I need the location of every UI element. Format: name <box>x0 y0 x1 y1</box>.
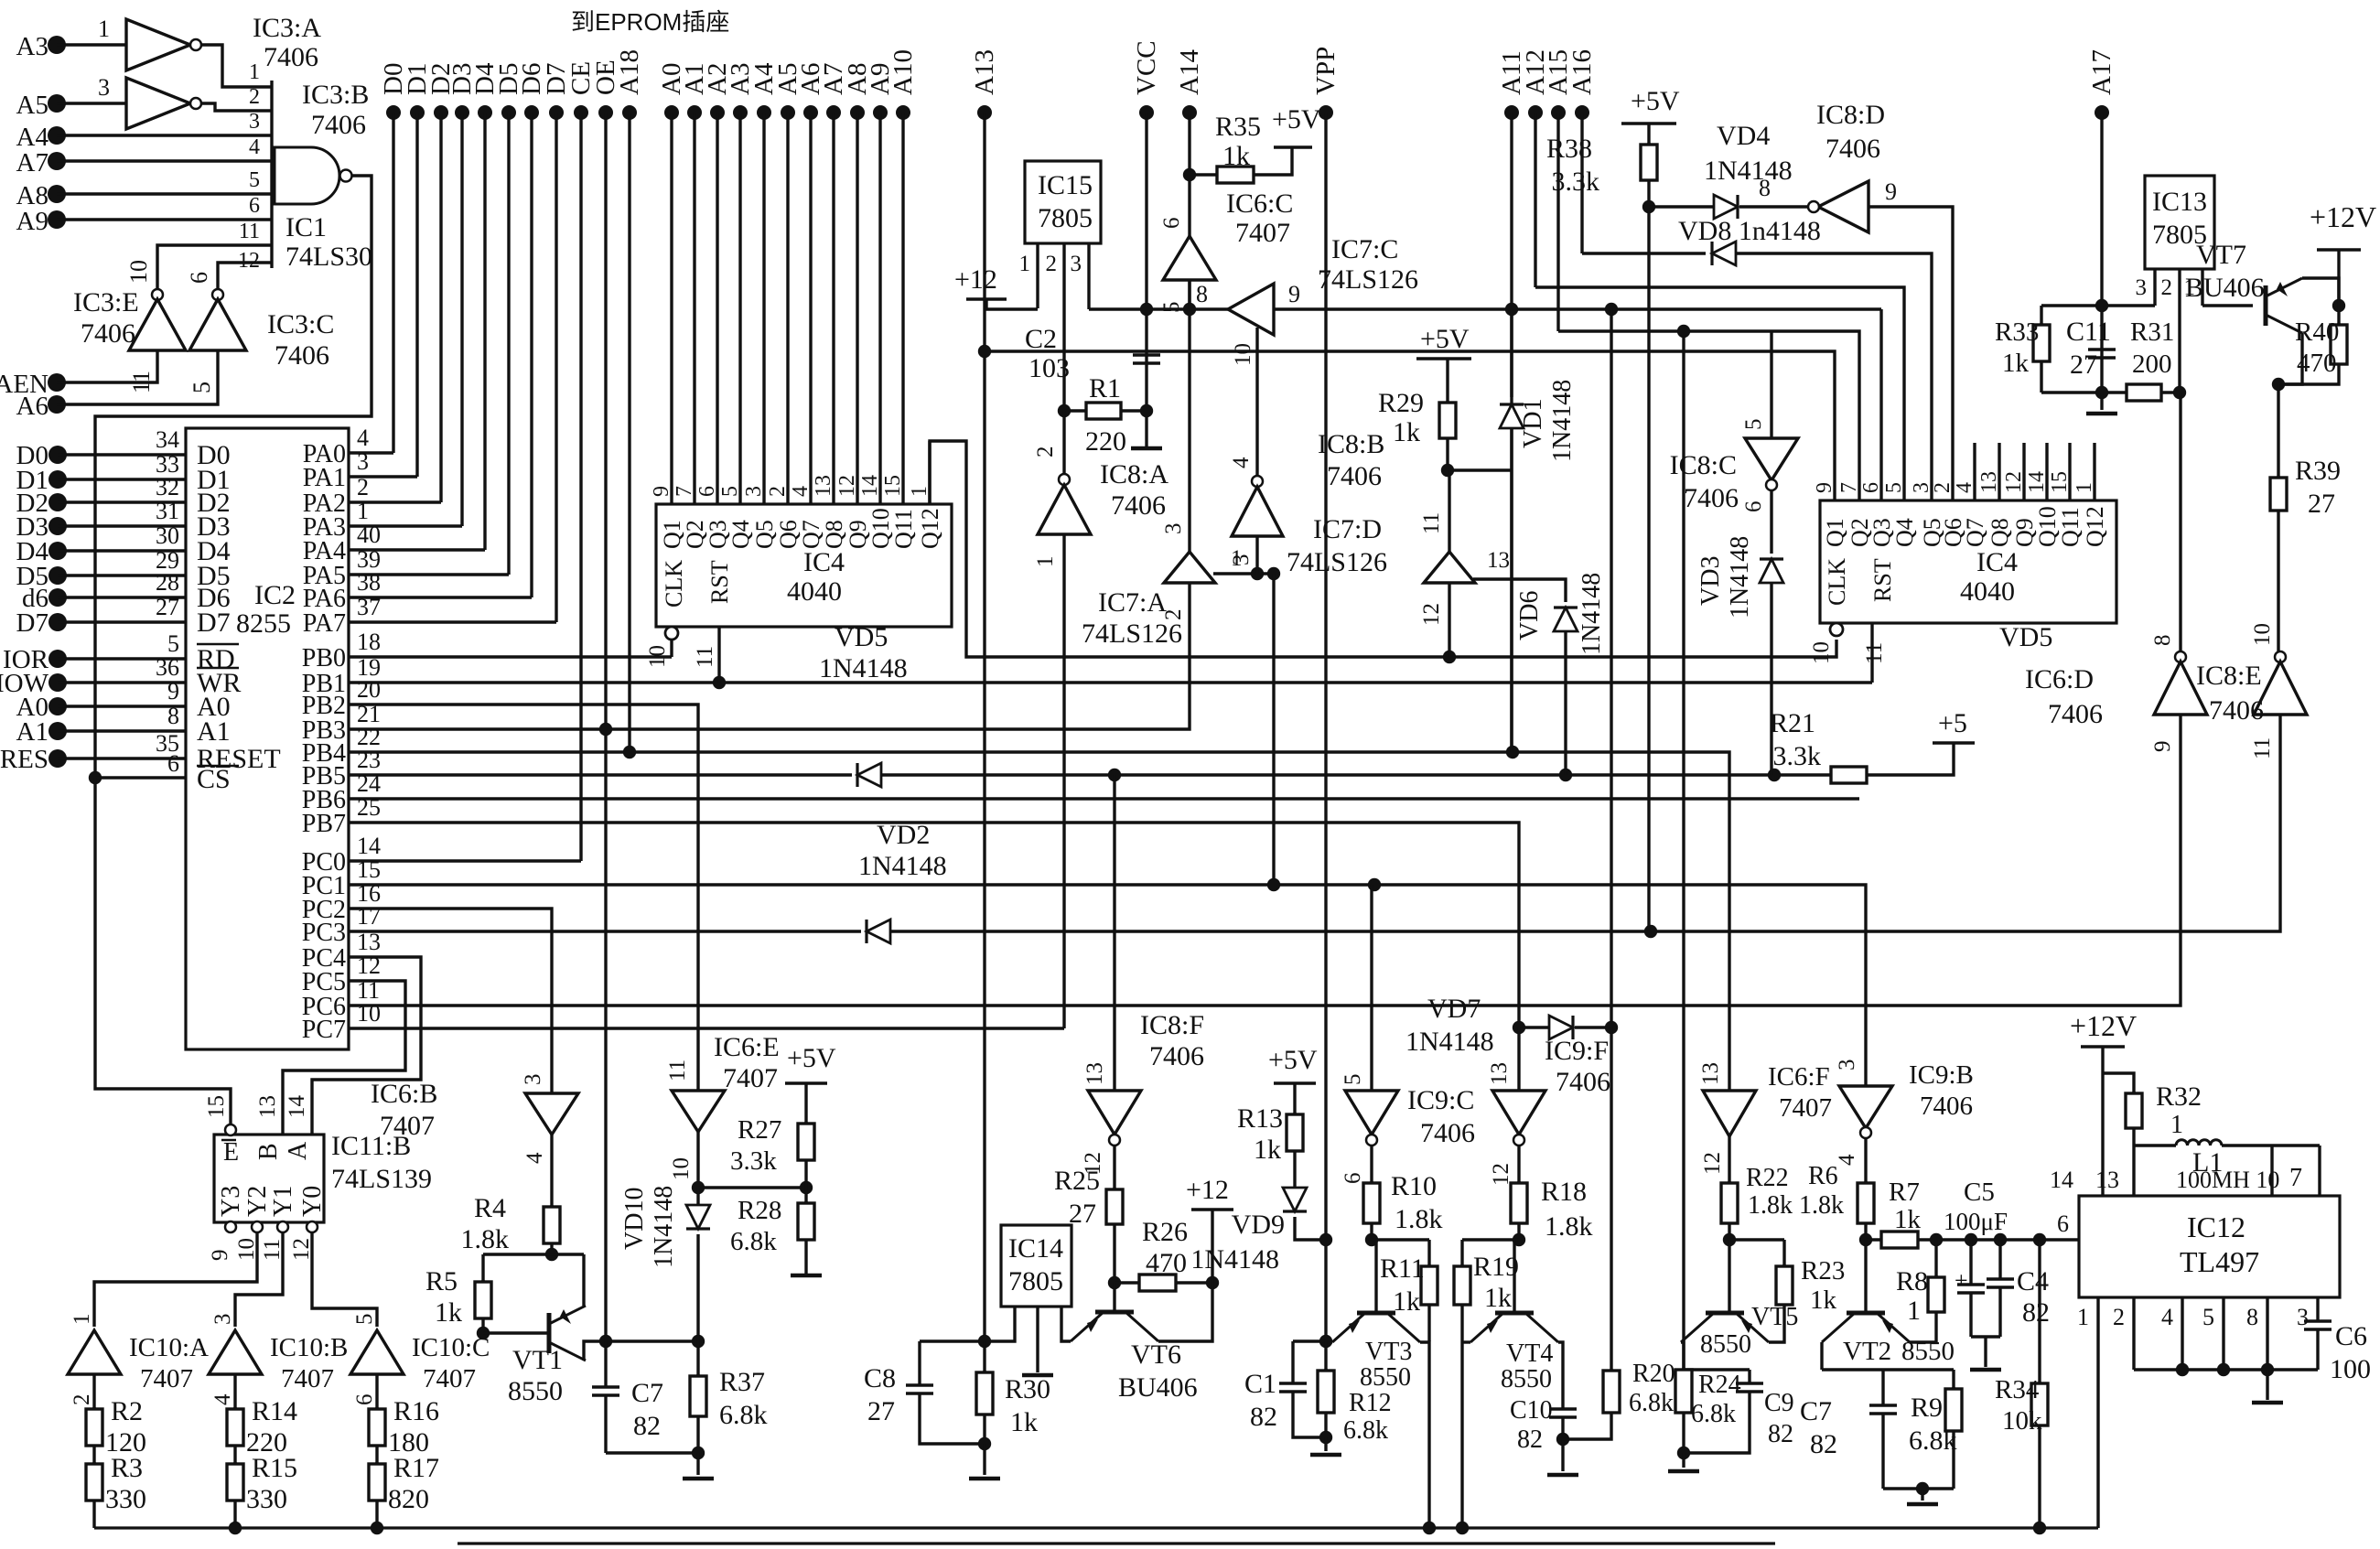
junction enable/IC8:B input <box>1251 567 1264 580</box>
wire IC6:D output up to IC13 pin2 line <box>2179 393 2181 651</box>
svg-text:R33: R33 <box>1995 317 2039 347</box>
svg-text:R30: R30 <box>1005 1374 1050 1404</box>
node A14 bus terminal <box>1182 105 1197 120</box>
svg-text:27: 27 <box>867 1396 895 1426</box>
svg-text:VT4: VT4 <box>1506 1339 1553 1368</box>
node A4 bus terminal <box>757 105 771 120</box>
node A17 bus terminal <box>2095 105 2109 120</box>
svg-text:2: 2 <box>1033 446 1058 458</box>
svg-text:82: 82 <box>1810 1429 1837 1459</box>
svg-text:103: 103 <box>1028 353 1070 383</box>
svg-text:27: 27 <box>2308 489 2335 519</box>
svg-text:3: 3 <box>210 1314 235 1326</box>
node D7 bus terminal <box>549 105 564 120</box>
svg-text:1: 1 <box>70 1314 94 1326</box>
wire PB1 to 4040 RST nets <box>349 681 1872 683</box>
wire IOW to IC2 <box>58 681 186 683</box>
svg-text:1k: 1k <box>435 1297 462 1328</box>
wire Y0 to IC10:C <box>312 1232 377 1327</box>
svg-text:11: 11 <box>693 646 717 668</box>
wire R23 bottom to VT5 emitter node <box>1769 1305 1784 1342</box>
input terminal D5 <box>48 566 67 585</box>
svg-text:3: 3 <box>2297 1304 2309 1330</box>
IC15 pin 2 <box>1062 243 1065 406</box>
node D6 bus terminal <box>524 105 539 120</box>
wire IOR to IC2 <box>58 657 186 660</box>
wire box bottom <box>1883 1487 1954 1490</box>
diode VD3 1N4148 <box>1770 490 1772 554</box>
svg-text:A6: A6 <box>16 392 48 421</box>
svg-text:28: 28 <box>156 569 179 596</box>
node CE bus terminal <box>574 105 588 120</box>
svg-text:14: 14 <box>357 833 381 859</box>
svg-text:BU406: BU406 <box>1118 1372 1198 1403</box>
svg-text:PC3: PC3 <box>302 919 346 947</box>
svg-text:E: E <box>223 1138 239 1167</box>
wire PB2 down to IC6:E <box>349 705 698 1091</box>
ground below R12 <box>1324 1437 1327 1451</box>
junction R25/R26/VT6 base <box>1108 1276 1121 1289</box>
junction PB4/A18 <box>623 746 636 758</box>
svg-text:20: 20 <box>357 676 381 703</box>
capacitor C7 82 <box>604 1341 607 1387</box>
wire A0 to IC2 <box>58 705 186 707</box>
svg-text:7406: 7406 <box>1684 483 1739 513</box>
wire VT3 base <box>1374 1240 1377 1313</box>
svg-text:6.8k: 6.8k <box>719 1400 768 1430</box>
wire node to R5 and emitter <box>483 1253 584 1255</box>
wire PA2 to D2 bus <box>349 500 441 503</box>
wire R14 column <box>233 1374 236 1409</box>
wire VT7 collector down <box>2278 333 2302 384</box>
junction R5 bottom / base <box>477 1327 490 1339</box>
svg-text:R37: R37 <box>719 1367 765 1397</box>
input terminal A1 <box>48 722 67 740</box>
svg-text:VCC: VCC <box>1132 40 1161 95</box>
wire PB6 rail <box>349 797 1859 800</box>
wire node to R23 <box>1729 1238 1784 1241</box>
wire A5 bus vertical <box>786 113 789 504</box>
node A3 bus terminal <box>733 105 748 120</box>
inverter IC8:E 7406 <box>2275 651 2286 662</box>
svg-text:C5: C5 <box>1964 1178 1995 1207</box>
svg-text:VD2: VD2 <box>877 820 930 850</box>
resistor R8 1 <box>1934 1240 1937 1277</box>
junction <box>2176 1363 2189 1376</box>
wire A15 to Q2 with IC8:C tap <box>1558 331 1859 500</box>
svg-text:11: 11 <box>1862 642 1887 664</box>
svg-text:VPP: VPP <box>1311 47 1341 95</box>
wire R38 column down to PC3 <box>1647 180 1650 931</box>
junction rail <box>371 1522 383 1534</box>
svg-text:8550: 8550 <box>1700 1330 1751 1359</box>
wire IC9:F input <box>1517 1027 1520 1091</box>
svg-text:6.8k: 6.8k <box>730 1227 777 1256</box>
NAND gate IC1 74LS30 <box>270 81 273 268</box>
svg-text:R20: R20 <box>1632 1360 1675 1388</box>
wire pin3 to A17 and R33 <box>2041 304 2155 307</box>
svg-text:Q8: Q8 <box>821 520 847 549</box>
svg-text:C4: C4 <box>2017 1266 2049 1296</box>
wire A13 bus vertical <box>983 113 985 1341</box>
junction +12V/R40 <box>2332 299 2345 312</box>
svg-text:10: 10 <box>234 1238 259 1261</box>
wire A11 bus vertical <box>1510 113 1513 752</box>
buffer IC6:C 7407 <box>1163 236 1216 280</box>
wire D3 to IC2 <box>58 524 186 527</box>
IC14 right pin to VT6 <box>1061 1307 1071 1341</box>
svg-text:RST: RST <box>1869 558 1896 602</box>
svg-text:6.8k: 6.8k <box>1691 1400 1736 1428</box>
resistor R16 180 <box>375 1407 378 1409</box>
svg-text:D7: D7 <box>197 608 231 638</box>
capacitor C2 103 on VCC rail <box>1133 353 1160 357</box>
wire VCC bus vertical <box>1145 113 1147 448</box>
node OE bus terminal <box>598 105 613 120</box>
svg-text:3: 3 <box>521 1074 545 1086</box>
wire RES to IC2 <box>58 757 186 759</box>
wire VT1 collector down to OE/C7 node <box>584 1341 606 1361</box>
svg-text:8550: 8550 <box>508 1376 563 1406</box>
junction C4 <box>1994 1233 2007 1246</box>
wire OE bus vertical <box>604 113 607 1341</box>
inverter IC8:C 7406 <box>1770 331 1772 438</box>
resistor R23 1k <box>1782 1240 1785 1266</box>
svg-text:1k: 1k <box>1810 1285 1837 1315</box>
junction Q12 net / IC7:D input <box>1443 651 1456 663</box>
junction rail <box>229 1522 242 1534</box>
svg-text:2: 2 <box>2113 1304 2125 1330</box>
ground below C11 <box>2100 393 2103 410</box>
svg-text:74LS30: 74LS30 <box>285 242 372 272</box>
svg-text:IC14: IC14 <box>1008 1233 1063 1264</box>
svg-text:VD5: VD5 <box>1999 622 2052 652</box>
svg-text:IC3:C: IC3:C <box>267 309 334 339</box>
wire IC3:B output to IC1 pin 2 <box>200 103 272 111</box>
wire PB3 to IC7:A enable <box>349 583 1190 729</box>
svg-text:6.8k: 6.8k <box>1343 1416 1388 1445</box>
svg-text:IC9:F: IC9:F <box>1545 1036 1609 1066</box>
svg-text:7407: 7407 <box>140 1364 193 1393</box>
svg-text:C10: C10 <box>1510 1396 1553 1425</box>
svg-text:C2: C2 <box>1025 324 1057 354</box>
svg-text:5: 5 <box>1341 1074 1365 1086</box>
svg-text:10k: 10k <box>2002 1406 2042 1436</box>
svg-text:R15: R15 <box>252 1453 297 1483</box>
junction R31/pin2 <box>2173 386 2186 399</box>
svg-text:Y1: Y1 <box>269 1186 297 1217</box>
svg-text:1N4148: 1N4148 <box>1190 1244 1279 1275</box>
svg-text:12: 12 <box>2002 471 2026 493</box>
wire VT6 base <box>1113 1283 1115 1312</box>
svg-text:9: 9 <box>208 1250 232 1262</box>
wire D7 bus vertical <box>555 113 557 622</box>
wire column from A15 line down to R24 cell <box>1682 331 1685 1370</box>
wire VT7 emitter to +12V column <box>2302 278 2339 306</box>
wire A7 to IC1 pin 4 <box>57 159 272 162</box>
resistor R35 1k <box>1190 173 1217 176</box>
capacitor C6 100 <box>2316 1297 2319 1321</box>
wire IC8:D input from Q6 column <box>1868 207 1953 500</box>
svg-text:IC8:A: IC8:A <box>1100 459 1168 489</box>
svg-text:1k: 1k <box>1393 1286 1420 1317</box>
svg-text:5: 5 <box>1741 419 1766 431</box>
svg-text:B: B <box>254 1143 283 1160</box>
svg-text:R35: R35 <box>1215 112 1261 142</box>
wire VT4 right lead to C10 <box>1558 1342 1563 1409</box>
IC IC4 4040 binary counter (right) <box>1820 500 2116 623</box>
ground bar below R28 <box>791 1274 822 1278</box>
svg-text:4: 4 <box>1229 457 1254 468</box>
inverter IC6:D 7406 <box>2175 651 2186 662</box>
svg-text:TL497: TL497 <box>2180 1245 2259 1278</box>
input terminal A5 <box>48 94 66 113</box>
IC11 pin 15 E input with bubble <box>225 1124 236 1135</box>
resistor R3 330 <box>92 1462 95 1464</box>
svg-text:12: 12 <box>835 475 859 497</box>
junction VPP <box>1319 1233 1332 1246</box>
svg-text:R9: R9 <box>1911 1393 1943 1423</box>
node A10 bus terminal <box>896 105 910 120</box>
junction R24 bottom <box>1677 1447 1690 1459</box>
wire IC9:C output down <box>1370 1145 1373 1183</box>
svg-text:Q12: Q12 <box>2082 506 2108 547</box>
junction enable/down column <box>1267 567 1280 580</box>
svg-text:3: 3 <box>249 110 260 134</box>
wire PC0 to CE <box>349 859 581 862</box>
IC14 middle pin to ground <box>1036 1307 1039 1372</box>
svg-text:7406: 7406 <box>264 42 318 72</box>
svg-text:PC7: PC7 <box>302 1016 346 1044</box>
junction C10 bottom <box>1556 1433 1569 1446</box>
svg-text:VT2: VT2 <box>1843 1337 1891 1366</box>
wire D0 to IC2 <box>58 453 186 456</box>
wire A17 bus vertical <box>2100 113 2103 306</box>
svg-text:11: 11 <box>239 220 260 243</box>
wire VD9 bottom to VPP line <box>1295 1217 1326 1240</box>
capacitor C4 82 <box>1998 1240 2001 1279</box>
svg-text:9: 9 <box>2150 741 2175 753</box>
svg-text:6: 6 <box>352 1394 377 1406</box>
svg-text:IC8:D: IC8:D <box>1816 100 1885 130</box>
svg-text:7: 7 <box>673 486 696 497</box>
svg-text:1.8k: 1.8k <box>1799 1191 1844 1220</box>
wire R15 to ground rail <box>233 1501 236 1528</box>
svg-text:Q11: Q11 <box>890 509 917 549</box>
svg-text:IC6:F: IC6:F <box>1768 1062 1830 1092</box>
resistor R26 470 <box>1115 1281 1139 1284</box>
svg-text:18: 18 <box>357 629 381 655</box>
svg-text:Q12: Q12 <box>917 508 943 549</box>
svg-text:82: 82 <box>1250 1402 1277 1432</box>
svg-text:7406: 7406 <box>1825 134 1880 164</box>
resistor R12 6.8k on VPP column <box>1324 1341 1327 1371</box>
wire D0 bus vertical <box>392 113 394 453</box>
svg-text:4: 4 <box>522 1152 547 1164</box>
svg-text:+5V: +5V <box>1420 324 1470 354</box>
junction at PC1 <box>1267 878 1280 891</box>
svg-text:R13: R13 <box>1237 1103 1283 1134</box>
wire D4 to IC2 <box>58 549 186 552</box>
svg-text:3.3k: 3.3k <box>730 1146 777 1176</box>
svg-text:6: 6 <box>1159 218 1184 230</box>
svg-text:R39: R39 <box>2295 456 2341 486</box>
svg-text:1: 1 <box>2170 1111 2183 1139</box>
IC14 left pin to A13/C8 node <box>920 1307 1015 1341</box>
wire IC13 pin1 to VT7 base <box>2202 304 2253 307</box>
junction VD7 left <box>1513 1021 1525 1034</box>
svg-text:Q7: Q7 <box>1962 518 1988 547</box>
inverter IC9:C 7406 <box>1345 1091 1398 1135</box>
IC15 pin 1 <box>1036 243 1039 308</box>
svg-text:Q5: Q5 <box>751 520 778 549</box>
diode VD2 lower on PC3 line <box>867 920 890 943</box>
wire IC8:A input from PC7 <box>1062 534 1065 1028</box>
svg-text:1.8k: 1.8k <box>461 1224 510 1254</box>
inverter IC9:B 7406 <box>1839 1086 1892 1128</box>
node A7 bus terminal <box>826 105 841 120</box>
inverter IC3:B 7406 <box>126 78 190 129</box>
junction VD7 right <box>1605 1021 1618 1034</box>
diode VD4 1N4148 <box>1649 205 1713 208</box>
svg-text:7406: 7406 <box>1920 1092 1973 1121</box>
wire D5 to IC2 <box>58 574 186 576</box>
svg-text:R28: R28 <box>738 1196 781 1225</box>
wire IC6:F output down <box>1728 1136 1730 1183</box>
tri-state buffer IC7:D 74LS126 <box>1424 552 1475 583</box>
svg-text:A17: A17 <box>2087 49 2116 95</box>
diode VD7 on PB7/IC9:F node <box>1519 1026 1548 1028</box>
wire VT4 base <box>1513 1240 1515 1313</box>
svg-text:CLK: CLK <box>661 560 687 608</box>
svg-text:Q11: Q11 <box>2057 507 2084 547</box>
svg-text:82: 82 <box>633 1411 661 1441</box>
svg-text:IC10:B: IC10:B <box>270 1333 348 1362</box>
junction R35/A14 <box>1183 168 1196 181</box>
wire enable column down to PC1 <box>1272 574 1275 885</box>
wire PC6 to IC6:D input <box>349 715 2181 1006</box>
junction R30 bottom/C8 <box>978 1437 991 1450</box>
svg-text:1: 1 <box>908 486 932 497</box>
resistor R15 330 <box>233 1462 236 1464</box>
input terminal A9 <box>48 210 66 229</box>
svg-text:7406: 7406 <box>275 340 329 371</box>
svg-text:+12: +12 <box>1186 1175 1229 1205</box>
junction R22 bottom <box>1723 1233 1736 1246</box>
capacitor C11 27 on A17 line <box>2100 306 2103 393</box>
inverter IC8:A 7406 <box>1059 474 1070 485</box>
svg-text:8: 8 <box>2246 1304 2258 1330</box>
node A8 bus terminal <box>850 105 865 120</box>
junction R1 right <box>1140 404 1153 417</box>
svg-text:2: 2 <box>1931 482 1955 493</box>
svg-text:8: 8 <box>1196 281 1208 307</box>
svg-text:5: 5 <box>1159 302 1184 314</box>
svg-text:A1: A1 <box>16 717 48 747</box>
node A12 bus terminal <box>1528 105 1543 120</box>
wire A3 bus vertical <box>738 113 741 504</box>
svg-text:5: 5 <box>352 1314 377 1326</box>
wire Y2 to IC10:A <box>94 1232 257 1327</box>
svg-text:4: 4 <box>249 135 260 159</box>
svg-text:IC9:B: IC9:B <box>1909 1060 1974 1090</box>
node VCC bus terminal <box>1139 105 1154 120</box>
svg-text:VT1: VT1 <box>512 1345 563 1375</box>
svg-text:7805: 7805 <box>1008 1266 1063 1296</box>
svg-text:13: 13 <box>1487 548 1510 573</box>
svg-text:+12V: +12V <box>2070 1009 2137 1042</box>
junction R4 bottom <box>545 1248 558 1261</box>
svg-text:4: 4 <box>357 425 369 451</box>
wire VD1 bottom to R29 node <box>1448 468 1512 471</box>
svg-text:R14: R14 <box>252 1396 297 1426</box>
junction VD10/R37 <box>692 1335 705 1348</box>
inverter IC3:E 7406 <box>152 289 163 300</box>
svg-text:15: 15 <box>2048 471 2072 493</box>
wire PC2 down to IC6:B <box>349 909 552 1093</box>
wire A14 bus vertical <box>1188 113 1190 552</box>
ground below R30 <box>983 1444 985 1475</box>
input terminal D0 <box>48 446 67 464</box>
svg-text:1.8k: 1.8k <box>1545 1211 1593 1242</box>
svg-text:2: 2 <box>1161 609 1186 621</box>
second bottom rail <box>458 1542 1775 1544</box>
svg-text:IC8:B: IC8:B <box>1318 429 1384 459</box>
wire A16 bus vertical <box>1580 113 1583 253</box>
svg-text:VT3: VT3 <box>1365 1338 1412 1366</box>
junction R1 left <box>1058 404 1071 417</box>
junction PB3/OE <box>599 723 612 736</box>
node A18 bus terminal <box>622 105 637 120</box>
svg-text:820: 820 <box>388 1484 429 1514</box>
inverter IC8:F 7406 <box>1088 1091 1141 1135</box>
svg-text:Q8: Q8 <box>1987 518 2013 547</box>
inverter IC9:F 7406 <box>1492 1091 1545 1135</box>
transistor VT3 8550 <box>1357 1311 1395 1316</box>
svg-text:1N4148: 1N4148 <box>1726 536 1754 619</box>
inverter IC6:F 7407 <box>1703 1091 1756 1136</box>
svg-text:4: 4 <box>1953 482 1976 493</box>
wire PB4 long rail to IC6:F input <box>349 752 1729 1091</box>
svg-text:R17: R17 <box>393 1453 439 1483</box>
inverter IC8:B 7406 <box>1252 476 1263 487</box>
svg-text:PA7: PA7 <box>303 609 346 638</box>
svg-text:Y2: Y2 <box>243 1186 272 1217</box>
resistor R24 6.8k <box>1682 1368 1685 1370</box>
wire D4 bus vertical <box>483 113 486 550</box>
wire A5 to IC3:B <box>57 102 126 104</box>
wire R17 to ground rail <box>375 1501 378 1528</box>
svg-text:A: A <box>284 1141 312 1160</box>
svg-text:4: 4 <box>1835 1154 1859 1166</box>
inverter IC3:C 7406 <box>212 289 223 300</box>
wire A12 to Q4 <box>1535 287 1904 500</box>
resistor R14 220 <box>233 1407 236 1409</box>
transistor VT2 8550 <box>1847 1311 1885 1316</box>
svg-text:C11: C11 <box>2066 317 2111 347</box>
junction <box>2095 386 2108 399</box>
junction mid column <box>1605 303 1618 316</box>
node A16 bus terminal <box>1575 105 1589 120</box>
input terminal A7 <box>48 152 66 170</box>
svg-text:R7: R7 <box>1889 1178 1920 1207</box>
junction CS node <box>89 771 102 784</box>
wire IC7:D output up <box>1448 470 1450 552</box>
wire PA1 to D1 bus <box>349 475 417 478</box>
diode VD8 1n4148 <box>1712 242 1736 265</box>
wire AEN to IC3:E <box>57 350 157 382</box>
svg-text:IC7:C: IC7:C <box>1331 234 1398 264</box>
